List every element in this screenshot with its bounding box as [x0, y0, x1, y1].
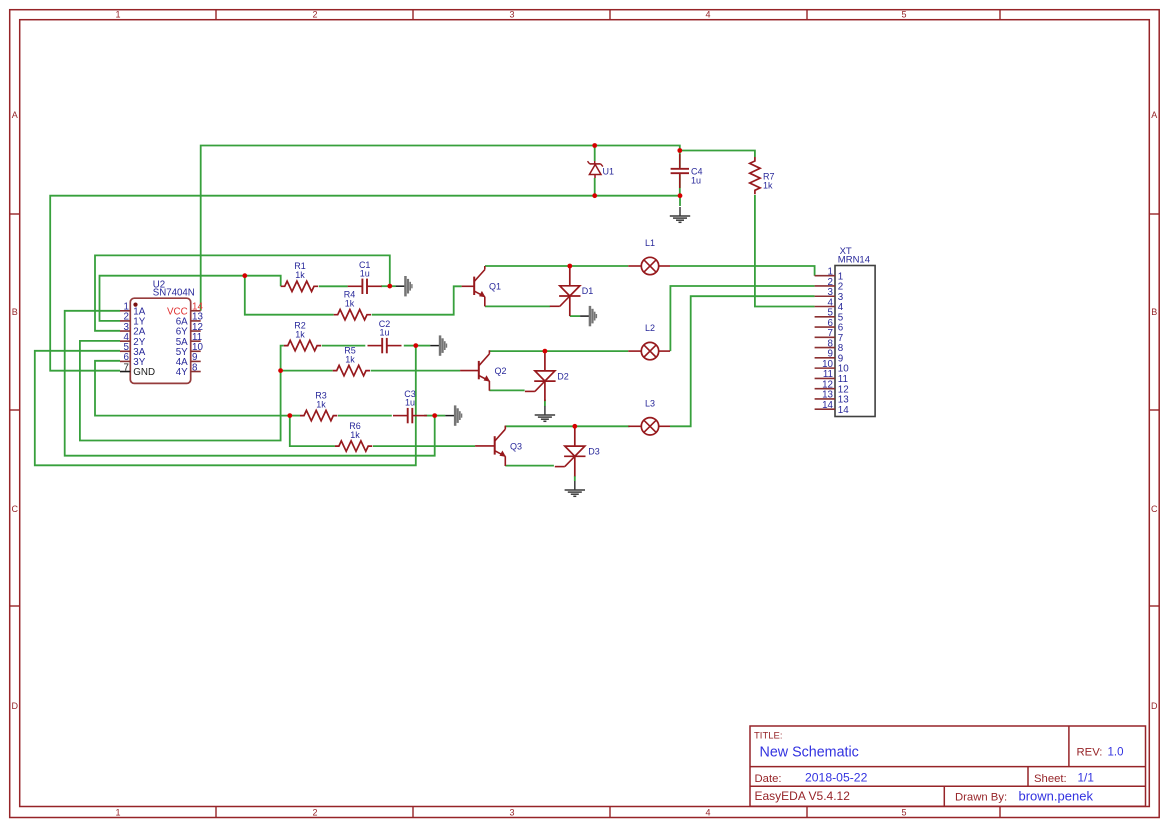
svg-text:1u: 1u — [691, 176, 701, 186]
svg-text:L3: L3 — [645, 398, 655, 408]
svg-text:4Y: 4Y — [176, 367, 188, 378]
svg-text:1u: 1u — [379, 328, 389, 338]
node R3 left junction — [287, 413, 292, 418]
wire Q2 collector rail to L2 — [489, 350, 628, 352]
svg-text:5: 5 — [901, 10, 906, 20]
flag ground at D1 — [580, 306, 597, 326]
capacitor C4 1u — [671, 154, 703, 188]
svg-text:5: 5 — [901, 807, 906, 817]
svg-text:D: D — [1151, 701, 1158, 711]
svg-text:1k: 1k — [295, 330, 305, 340]
resistor R3 1k — [300, 391, 337, 421]
node R1/R4 junction — [242, 273, 247, 278]
resistor R5 1k — [333, 346, 370, 376]
svg-text:Drawn By:: Drawn By: — [955, 792, 1007, 804]
wire C2 to gnd node — [404, 345, 416, 347]
svg-text:MRN14: MRN14 — [838, 255, 870, 266]
svg-text:7: 7 — [124, 362, 129, 373]
svg-text:C: C — [1151, 504, 1158, 514]
svg-text:1k: 1k — [316, 400, 326, 410]
node U1 bottom junction — [592, 193, 597, 198]
flag ground at C3 — [435, 405, 463, 425]
wire R5 dot to R5 — [281, 370, 333, 372]
svg-text:Q1: Q1 — [489, 282, 501, 292]
wire C4 to earth gnd — [679, 196, 681, 206]
svg-text:3: 3 — [509, 807, 514, 817]
resistor R2 1k — [284, 321, 321, 351]
thyristor D3 — [555, 426, 600, 476]
wire pin3 to C1 output node — [95, 255, 390, 330]
capacitor C2 1u — [368, 319, 402, 353]
wire R3 dot to R3 — [290, 415, 300, 417]
wire R2 out to C2 — [322, 345, 366, 347]
svg-text:SN7404N: SN7404N — [153, 287, 195, 298]
earth ground at D2 — [535, 406, 555, 421]
title block — [750, 726, 1146, 806]
resistor R7 1k — [750, 157, 775, 194]
svg-text:Q3: Q3 — [510, 441, 522, 451]
wire Q3 collector rail to L3 — [505, 425, 629, 427]
resistor R1 1k — [281, 261, 318, 291]
transistor Q3 — [475, 426, 522, 466]
svg-text:brown.penek: brown.penek — [1019, 789, 1094, 804]
wire C1 to gnd node — [381, 285, 390, 287]
svg-text:B: B — [1151, 307, 1157, 317]
node C4 top junction — [677, 148, 682, 153]
wire node C3 down to pin1 rail — [65, 311, 435, 456]
svg-text:C: C — [11, 504, 18, 514]
svg-text:D1: D1 — [582, 286, 594, 296]
svg-text:REV:: REV: — [1077, 747, 1103, 759]
node R5 left junction — [278, 368, 283, 373]
wire L2 to XT pin2 — [670, 286, 814, 351]
resistor R4 1k — [334, 290, 371, 320]
earth ground at C4 — [670, 207, 690, 222]
svg-text:U1: U1 — [603, 167, 615, 177]
thyristor D2 — [525, 351, 569, 401]
svg-text:1k: 1k — [763, 180, 773, 190]
svg-text:D3: D3 — [588, 447, 600, 457]
IC U2 SN7404N — [120, 280, 203, 384]
svg-text:Q2: Q2 — [494, 366, 506, 376]
svg-text:D: D — [11, 701, 18, 711]
wire Q1 collector rail to L1 — [485, 265, 628, 267]
capacitor C3 1u — [393, 389, 427, 423]
svg-text:1u: 1u — [360, 268, 370, 278]
svg-text:L1: L1 — [645, 238, 655, 248]
wire C4 top lead — [679, 151, 681, 168]
lamp L3 — [628, 398, 670, 435]
wire pin6 to R3 rail — [95, 361, 290, 416]
transistor Q2 — [460, 350, 506, 390]
svg-text:4: 4 — [705, 10, 710, 20]
wire D1 cathode to gnd — [570, 315, 580, 317]
zener diode U1 — [588, 161, 615, 178]
node D3 anode junction — [572, 424, 577, 429]
node D2 anode junction — [543, 349, 548, 354]
resistor R6 1k — [335, 421, 372, 451]
node C4 bottom junction — [678, 193, 683, 198]
node C3/gnd junction — [432, 413, 437, 418]
transistor Q1 — [462, 266, 501, 306]
capacitor C1 1u — [348, 260, 382, 294]
svg-text:EasyEDA V5.4.12: EasyEDA V5.4.12 — [755, 789, 851, 803]
svg-text:New Schematic: New Schematic — [760, 745, 859, 761]
node C2/gnd junction — [413, 343, 418, 348]
svg-text:8: 8 — [192, 362, 198, 373]
earth ground at D3 — [565, 481, 585, 496]
svg-text:A: A — [12, 110, 18, 120]
svg-text:2: 2 — [312, 10, 317, 20]
thyristor D1 — [550, 266, 593, 316]
svg-text:1k: 1k — [295, 270, 305, 280]
wire L3 to XT pin3 — [670, 296, 815, 426]
wire D3 cathode to gnd — [574, 476, 576, 481]
svg-text:3: 3 — [509, 10, 514, 20]
wire U1 top lead — [594, 146, 596, 162]
svg-text:L2: L2 — [645, 323, 655, 333]
wire R4 out to Q1 base — [372, 286, 462, 314]
lamp L2 — [628, 323, 670, 360]
wire R7 bottom to XT pin4 — [755, 195, 815, 307]
svg-text:A: A — [1151, 110, 1157, 120]
flag ground at C1 — [390, 276, 413, 296]
wire C4 bottom lead — [679, 175, 681, 196]
wire R6 out to Q3 base — [373, 445, 475, 447]
svg-text:1: 1 — [115, 807, 120, 817]
node D1 anode junction — [567, 264, 572, 269]
svg-text:1: 1 — [115, 10, 120, 20]
svg-text:GND: GND — [133, 367, 155, 378]
svg-text:1k: 1k — [345, 355, 355, 365]
svg-text:Date:: Date: — [755, 773, 782, 785]
wire VCC rail pin14 to C4/R7 — [201, 146, 755, 311]
wire Q1 emitter to D1 gate — [485, 305, 550, 307]
svg-text:14: 14 — [838, 405, 849, 416]
svg-text:1k: 1k — [345, 299, 355, 309]
node C1/gnd junction — [387, 284, 392, 289]
svg-text:2: 2 — [312, 807, 317, 817]
wire Q3 emitter to D3 gate — [505, 465, 554, 467]
wire R3 node down to R6 — [290, 416, 335, 447]
svg-text:1/1: 1/1 — [1078, 771, 1094, 785]
svg-text:4: 4 — [705, 807, 710, 817]
wire R3 out to C3 — [338, 415, 392, 417]
svg-text:1k: 1k — [350, 430, 360, 440]
svg-text:14: 14 — [822, 400, 833, 411]
wire D2 cathode to gnd — [544, 400, 546, 407]
wire L1 to XT pin1 — [670, 266, 815, 276]
svg-text:Sheet:: Sheet: — [1034, 773, 1067, 785]
svg-text:TITLE:: TITLE: — [754, 731, 783, 742]
lamp L1 — [628, 238, 670, 275]
wire node C2 down to pin5 rail — [35, 346, 416, 466]
svg-text:1u: 1u — [405, 398, 415, 408]
wire R1 out to C1 — [319, 285, 348, 287]
wire R5 out to Q2 base — [371, 370, 460, 372]
connector XT MRN14 — [815, 246, 876, 417]
node U1 top junction — [592, 143, 597, 148]
svg-text:B: B — [12, 307, 18, 317]
wire Q2 emitter to D2 gate — [489, 389, 524, 391]
svg-text:D2: D2 — [557, 371, 569, 381]
wire C3 to gnd node — [424, 415, 435, 417]
svg-text:2018-05-22: 2018-05-22 — [805, 771, 868, 785]
wire pin4 to R2 left rail — [80, 341, 284, 441]
svg-text:1.0: 1.0 — [1108, 747, 1124, 759]
flag ground at C2 — [416, 335, 447, 355]
wire node R1/R4 branch down to R4 row — [245, 276, 334, 315]
wire pin2 to R1 input rail — [100, 276, 281, 321]
wire GND rail pin7 to U1/C4 — [50, 196, 680, 371]
wire U1 bottom lead — [594, 178, 596, 196]
